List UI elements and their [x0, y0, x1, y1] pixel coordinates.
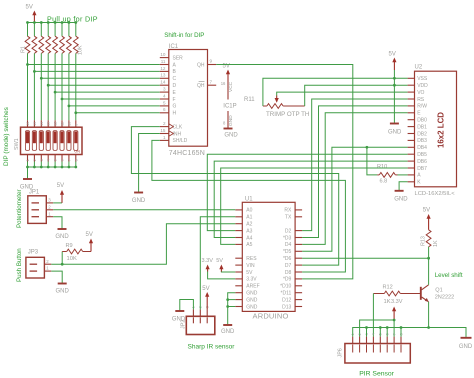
svg-text:2: 2: [33, 159, 37, 161]
svg-text:INH: INH: [173, 131, 182, 137]
supply 5V IC1P: [223, 64, 231, 81]
resistor R8 (pull-up): [73, 23, 78, 121]
svg-text:H: H: [173, 111, 177, 117]
wire DIP2 to IC1 B: [33, 70, 160, 73]
ground LCD backlight: [394, 191, 408, 203]
svg-text:U1: U1: [245, 197, 253, 203]
IC1 pin numbers: [160, 52, 212, 140]
svg-text:R11: R11: [244, 97, 255, 103]
shift register IC1 74HC165N: [160, 50, 216, 147]
svg-text:RS: RS: [417, 97, 425, 103]
wire JP3 pin2 to A2: [51, 224, 235, 266]
connector JP1 (potentiometer): [28, 196, 53, 224]
svg-text:A2: A2: [246, 222, 252, 228]
svg-text:1K: 1K: [384, 299, 391, 305]
wire LCD power vertical: [393, 70, 396, 124]
connector JP3 (push button): [26, 257, 51, 278]
svg-text:5V: 5V: [216, 258, 223, 264]
svg-text:VSS: VSS: [417, 76, 428, 82]
power pin GND (8): [223, 111, 234, 129]
JP1 pin numbers: [48, 198, 51, 217]
svg-text:SH/LD: SH/LD: [173, 138, 188, 144]
svg-text:A: A: [173, 62, 177, 68]
svg-text:3: 3: [40, 159, 44, 161]
svg-text:D12: D12: [282, 297, 291, 303]
svg-text:AREF: AREF: [246, 284, 259, 290]
svg-text:11: 11: [61, 122, 65, 126]
resistor R9: [62, 249, 91, 264]
svg-text:D7: D7: [285, 263, 292, 269]
svg-text:D: D: [173, 83, 177, 89]
transistor Q1 2N2222: [421, 258, 429, 327]
svg-text:DB4: DB4: [417, 145, 427, 151]
Arduino U1: [235, 202, 302, 311]
wire R12 to PIR pin4: [372, 294, 374, 337]
supply 3.3V Arduino: [202, 258, 236, 279]
supply 5V LCD: [389, 52, 397, 71]
svg-text:RX: RX: [284, 208, 292, 214]
svg-text:A3: A3: [246, 228, 252, 234]
svg-text:2: 2: [358, 333, 362, 335]
JP2 pin numbers: [192, 306, 210, 308]
wire PIR ground bus: [353, 326, 466, 338]
wire DIP8 to IC1 H: [74, 111, 159, 114]
svg-text:6: 6: [61, 159, 65, 161]
wire DB6 to A4: [214, 161, 407, 237]
resistor R6 (pull-up): [60, 23, 65, 121]
svg-text:D8: D8: [285, 270, 292, 276]
svg-text:7: 7: [210, 79, 213, 84]
svg-text:4: 4: [47, 159, 51, 161]
supply 5V R9: [86, 232, 94, 252]
svg-text:SER: SER: [173, 55, 184, 61]
svg-text:IC1: IC1: [169, 44, 179, 50]
wire DB4 to D5: [302, 147, 408, 251]
svg-text:GND: GND: [246, 291, 257, 297]
svg-text:5V: 5V: [423, 208, 430, 214]
svg-text:A1: A1: [246, 215, 252, 221]
svg-text:QH: QH: [197, 62, 205, 68]
svg-text:ON: ON: [74, 150, 80, 154]
svg-text:5: 5: [54, 159, 58, 161]
svg-text:2N2222: 2N2222: [435, 295, 455, 301]
svg-text:E: E: [417, 111, 421, 117]
svg-text:GND: GND: [228, 115, 234, 126]
power pin VCC (16): [221, 80, 234, 100]
resistor R5 (pull-up): [53, 23, 58, 121]
svg-text:16x2 LCD: 16x2 LCD: [437, 112, 446, 148]
wire VSS net: [263, 78, 408, 106]
DIP pin numbers bottom: [26, 159, 78, 161]
svg-text:7: 7: [67, 159, 71, 161]
wire JP2 pin1 to GND: [172, 300, 194, 323]
svg-text:3.3V: 3.3V: [391, 299, 403, 305]
svg-text:2: 2: [163, 121, 166, 126]
svg-text:VIN: VIN: [246, 263, 255, 269]
svg-text:R1: R1: [21, 46, 27, 53]
wire JP1 pin2 to A0: [53, 209, 235, 211]
wire DIP3 to IC1 C: [40, 77, 160, 80]
svg-text:GND: GND: [246, 297, 257, 303]
svg-text:*D11: *D11: [281, 291, 292, 297]
resistor R2 (pull-up): [32, 23, 37, 121]
svg-text:5V: 5V: [86, 232, 93, 238]
svg-text:13: 13: [47, 122, 51, 126]
svg-text:D4: D4: [285, 242, 292, 248]
svg-text:DB2: DB2: [417, 131, 427, 137]
svg-text:JP3: JP3: [28, 250, 39, 256]
svg-text:A5: A5: [246, 242, 252, 248]
svg-text:VDD: VDD: [417, 83, 428, 89]
wire PIR 3.3V bus: [360, 319, 396, 337]
svg-text:5V: 5V: [57, 183, 64, 189]
svg-text:1: 1: [26, 159, 30, 161]
svg-text:5V: 5V: [389, 52, 396, 58]
svg-text:*D6: *D6: [283, 256, 292, 262]
wire DIP common bus: [26, 162, 77, 169]
supply 5V Arduino: [216, 258, 235, 272]
ground PIR: [459, 338, 473, 350]
resistor R4 (pull-up): [46, 23, 51, 121]
wire RS to D2: [302, 99, 408, 231]
svg-text:CLK: CLK: [173, 124, 183, 130]
svg-text:GND: GND: [55, 234, 69, 240]
svg-text:RES: RES: [246, 256, 257, 262]
resistor R3 (pull-up): [39, 23, 44, 121]
svg-text:10K: 10K: [67, 256, 77, 262]
svg-text:*D10: *D10: [280, 284, 291, 290]
wire D6 level-shift net: [302, 257, 430, 260]
wire DIP7 to IC1 G: [68, 105, 160, 108]
svg-text:8: 8: [223, 121, 226, 126]
LCD connector U2 16x2 LCD: [408, 71, 457, 187]
wire DIP4 to IC1 D: [47, 84, 160, 87]
svg-text:9: 9: [210, 59, 213, 64]
wire CLK to D7: [131, 127, 338, 266]
svg-text:5: 5: [163, 100, 166, 105]
svg-text:2: 2: [48, 204, 51, 209]
svg-text:DB6: DB6: [417, 159, 427, 165]
svg-text:3: 3: [48, 198, 51, 203]
wire INH to GND: [132, 134, 160, 204]
ground IC1P: [224, 129, 239, 139]
svg-text:R12: R12: [383, 285, 393, 291]
ground LCD power: [388, 124, 402, 136]
svg-text:D2: D2: [285, 228, 292, 234]
svg-text:16: 16: [221, 81, 226, 86]
svg-text:JP6: JP6: [338, 348, 344, 357]
svg-text:F: F: [173, 97, 176, 103]
svg-text:Potentiometer: Potentiometer: [16, 189, 23, 228]
svg-text:GND: GND: [56, 288, 70, 294]
svg-text:B: B: [173, 69, 177, 75]
svg-text:Sharp IR sensor: Sharp IR sensor: [188, 344, 236, 351]
svg-text:16: 16: [26, 122, 30, 126]
resistor R7 (pull-up): [67, 23, 72, 121]
svg-text:R9: R9: [66, 243, 73, 249]
connector JP6 (PIR sensor): [345, 337, 410, 363]
connector JP2 (Sharp IR sensor): [186, 309, 215, 334]
svg-text:R/W: R/W: [417, 104, 427, 110]
svg-text:JP1: JP1: [29, 189, 40, 195]
svg-text:QH: QH: [197, 83, 205, 89]
svg-text:DB3: DB3: [417, 138, 427, 144]
ground Arduino: [221, 325, 235, 335]
svg-text:*D5: *D5: [283, 249, 292, 255]
svg-text:14: 14: [160, 80, 166, 85]
svg-text:10: 10: [67, 122, 71, 126]
ground DIP: [20, 167, 34, 190]
svg-text:Level shift: Level shift: [435, 272, 463, 279]
svg-text:12: 12: [160, 66, 166, 71]
wire VDD net: [305, 85, 408, 106]
svg-text:A: A: [417, 173, 421, 179]
svg-text:GND: GND: [246, 304, 257, 310]
svg-text:VO: VO: [417, 90, 424, 96]
svg-text:DB5: DB5: [417, 152, 427, 158]
supply 5V JP2: [202, 286, 209, 310]
wire JP1 pin3 to 5V: [53, 202, 62, 204]
svg-text:GND: GND: [459, 344, 473, 350]
wire Arduino GND: [226, 293, 235, 325]
svg-text:A4: A4: [246, 235, 252, 241]
wire SH/LD to D8: [152, 140, 346, 272]
supply 5V (pull-up bank): [26, 5, 37, 23]
resistor R10 (backlight): [366, 146, 408, 177]
svg-text:R10: R10: [377, 164, 387, 170]
svg-text:7: 7: [392, 333, 396, 335]
svg-text:R13: R13: [420, 236, 426, 246]
svg-text:TRIMP OTP TH: TRIMP OTP TH: [266, 111, 309, 118]
svg-text:6: 6: [163, 107, 166, 112]
svg-text:15: 15: [160, 128, 166, 133]
svg-text:ARDUINO: ARDUINO: [253, 311, 289, 320]
JP3 pin numbers: [46, 259, 49, 271]
wire JP2 signal to A1: [200, 217, 235, 310]
svg-text:GND: GND: [224, 133, 238, 139]
svg-text:9: 9: [74, 124, 78, 126]
wire LCD K to GND: [399, 182, 408, 191]
svg-text:5V: 5V: [246, 270, 253, 276]
svg-text:A0: A0: [246, 208, 252, 214]
svg-text:GND: GND: [394, 197, 408, 203]
wire 5V bus: [26, 21, 77, 24]
svg-text:1: 1: [46, 266, 49, 271]
PIR pin numbers: [351, 333, 403, 335]
svg-text:8: 8: [74, 159, 78, 161]
svg-text:3.3V: 3.3V: [202, 258, 214, 264]
svg-text:C: C: [173, 76, 177, 82]
svg-text:4: 4: [372, 333, 376, 335]
svg-text:1: 1: [163, 135, 166, 140]
wire DIP5 to IC1 E: [54, 91, 160, 94]
svg-text:DB0: DB0: [417, 118, 427, 124]
resistor R13: [426, 230, 431, 258]
svg-text:4: 4: [163, 93, 166, 98]
svg-text:PIR Sensor: PIR Sensor: [359, 370, 394, 377]
supply 3.3V PIR: [391, 299, 403, 320]
wire E to D4: [302, 113, 408, 245]
svg-text:TX: TX: [285, 215, 292, 221]
wire DB5 to A3: [207, 154, 407, 230]
svg-text:GND: GND: [221, 329, 235, 335]
svg-text:1K: 1K: [433, 240, 439, 247]
svg-text:SW1: SW1: [14, 138, 20, 150]
svg-text:*D3: *D3: [283, 235, 292, 241]
svg-text:2: 2: [46, 259, 49, 264]
svg-text:GND: GND: [172, 317, 186, 323]
DIP pin numbers top: [26, 122, 78, 126]
svg-text:14: 14: [40, 122, 44, 126]
svg-text:12: 12: [54, 122, 58, 126]
svg-text:G: G: [173, 104, 177, 110]
svg-text:13: 13: [160, 73, 166, 78]
svg-text:DB1: DB1: [417, 124, 427, 130]
svg-text:10: 10: [160, 52, 166, 57]
DIP switch SW1: [21, 120, 83, 161]
resistor R12: [373, 291, 420, 296]
svg-text:3: 3: [163, 87, 166, 92]
wire JP3 pin1 to GND: [51, 271, 69, 294]
svg-text:Shift-in for DIP: Shift-in for DIP: [164, 32, 204, 39]
svg-text:LCD-16X2/5IL<: LCD-16X2/5IL<: [415, 191, 456, 197]
resistor R1 (pull-up): [25, 23, 30, 121]
svg-text:74HC165N: 74HC165N: [169, 150, 205, 157]
svg-text:IC1P: IC1P: [223, 104, 236, 110]
svg-text:15: 15: [33, 122, 37, 126]
svg-text:GND: GND: [132, 198, 146, 204]
svg-text:D13: D13: [282, 304, 291, 310]
wire QH to D9: [216, 65, 353, 279]
svg-text:11: 11: [161, 59, 166, 64]
wire DIP1 to IC1 A: [26, 63, 160, 66]
svg-text:GND: GND: [388, 129, 402, 135]
wire R/W to D3: [302, 106, 408, 238]
svg-text:*D9: *D9: [283, 277, 292, 283]
svg-text:Q1: Q1: [435, 288, 442, 294]
wire VO net (wiper): [277, 92, 408, 95]
wire DB7 to A5: [221, 168, 408, 244]
svg-text:5V: 5V: [202, 286, 209, 292]
svg-text:6.8: 6.8: [380, 179, 388, 185]
svg-text:3.3V: 3.3V: [246, 277, 257, 283]
trimpot R11 TRIMP OTP TH: [263, 96, 305, 109]
supply 5V JP1: [57, 183, 64, 203]
supply 5V R13: [423, 208, 431, 230]
wire JP1 pin1 to GND: [53, 217, 69, 240]
svg-text:E: E: [173, 90, 177, 96]
svg-text:Push Button: Push Button: [16, 248, 23, 282]
svg-text:U2: U2: [415, 65, 423, 71]
svg-text:1: 1: [48, 211, 51, 216]
svg-text:DIP (mode) switches: DIP (mode) switches: [3, 107, 10, 166]
svg-text:5V: 5V: [26, 5, 33, 11]
wire DIP6 to IC1 F: [61, 98, 160, 101]
svg-text:K: K: [417, 180, 421, 186]
svg-text:DB7: DB7: [417, 166, 427, 172]
svg-text:10K: 10K: [78, 45, 84, 55]
svg-text:VCC: VCC: [228, 81, 234, 92]
